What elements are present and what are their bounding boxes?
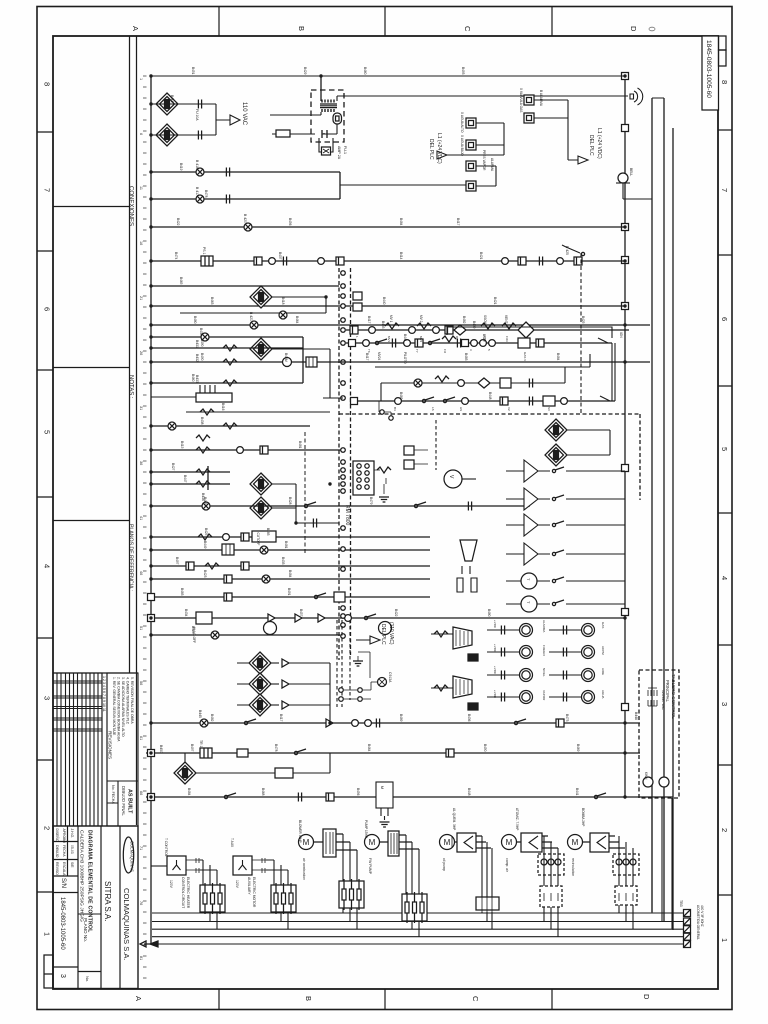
PLC input blocks: [340, 112, 504, 191]
svg-text:comp. air: comp. air: [505, 858, 509, 873]
row y=652 col1: [487, 651, 519, 653]
rung 2 wire: [151, 103, 216, 105]
rung y=566: [151, 565, 430, 567]
svg-text:4. CAMBIO TERMINALES PLC: 4. CAMBIO TERMINALES PLC: [126, 677, 130, 725]
svg-text:CALDERA CH3 1000BHP 250PSIG JH: CALDERA CH3 1000BHP 250PSIG JHG/G: [79, 830, 85, 922]
svg-text:8: 8: [43, 82, 52, 86]
svg-text:B484: B484: [556, 353, 560, 361]
svg-text:1. REV. GENERAL SEGUN MONTAJE: 1. REV. GENERAL SEGUN MONTAJE: [112, 677, 116, 736]
svg-text:DIBUJO: DIBUJO: [55, 845, 59, 858]
left rail: [150, 76, 152, 944]
svg-text:B478: B478: [204, 190, 208, 198]
svg-text:B423: B423: [203, 570, 207, 578]
dashed column lines: [339, 268, 351, 660]
node L2-306: [622, 303, 629, 310]
indicator lamp grid: [487, 620, 605, 704]
svg-text:B464: B464: [295, 316, 299, 324]
svg-text:3: 3: [43, 696, 52, 700]
svg-text:T7: T7: [415, 349, 419, 353]
svg-text:B499: B499: [472, 321, 476, 329]
motor circles mid: [264, 622, 277, 635]
bus terminals right: [684, 910, 691, 917]
chain right part: [502, 258, 509, 265]
rung y=337: [151, 336, 303, 338]
svg-text:V2: V2: [507, 407, 511, 411]
svg-text:05-03: 05-03: [70, 845, 74, 854]
row y=697 col2: [549, 696, 581, 698]
svg-text:CONEXIONES: CONEXIONES: [128, 186, 134, 226]
svg-text:ACPM: ACPM: [601, 646, 605, 655]
svg-text:(110 VAC): (110 VAC): [388, 622, 394, 645]
svg-text:B 416: B 416: [195, 160, 199, 169]
rung y=506: [151, 505, 530, 507]
svg-text:6: 6: [43, 307, 52, 311]
rung y=306: [151, 305, 625, 307]
svg-text:51: 51: [139, 626, 143, 630]
svg-text:120V: 120V: [235, 880, 239, 889]
node L2-260: [622, 257, 629, 264]
svg-text:B448: B448: [467, 788, 471, 796]
rung y=412: [186, 411, 330, 413]
svg-text:B490: B490: [200, 353, 204, 361]
svg-text:B464: B464: [367, 744, 371, 752]
rung y=635: [151, 634, 340, 636]
svg-text:B428: B428: [288, 497, 292, 505]
svg-text:C: C: [471, 996, 480, 1002]
svg-text:3. SE ADICIONA ALARMA NIVEL AL: 3. SE ADICIONA ALARMA NIVEL ALTO: [121, 677, 125, 737]
svg-text:+VDC: +VDC: [493, 620, 497, 629]
svg-text:AMP 2A: AMP 2A: [337, 146, 341, 160]
row y=675 col1: [487, 674, 519, 676]
svg-text:B441: B441: [403, 334, 407, 342]
svg-text:DEL PLC: DEL PLC: [588, 135, 594, 156]
svg-text:B456: B456: [288, 218, 292, 226]
svg-text:BELL: BELL: [629, 168, 633, 176]
svg-text:ALARMA: ALARMA: [490, 158, 494, 172]
starter group G7 recirculation M5: [568, 808, 640, 929]
svg-text:FU: FU: [443, 349, 447, 353]
notes block border: [107, 673, 138, 826]
rung y=484: [151, 466, 230, 490]
node L2-707: [622, 704, 629, 711]
svg-text:GAS V: GAS V: [523, 352, 527, 361]
switches right of drivers: [552, 467, 564, 473]
svg-text:B482: B482: [210, 714, 214, 722]
rung y=537: [151, 536, 430, 538]
svg-text:B480: B480: [487, 609, 491, 617]
svg-text:BOMBA 2HP: BOMBA 2HP: [581, 808, 585, 826]
relay box K8: [376, 782, 393, 808]
svg-text:C913A: C913A: [388, 672, 392, 683]
burner programmer RM7800: [305, 253, 640, 660]
svg-text:1 2 3 4 5 6 7 8 9 10: 1 2 3 4 5 6 7 8 9 10 11: [102, 676, 106, 712]
rung 3 wire: [151, 104, 216, 135]
rung y=383 breaker: [151, 337, 303, 383]
svg-text:B438: B438: [200, 417, 204, 425]
svg-text:AL QUEM. 3HP: AL QUEM. 3HP: [452, 808, 456, 830]
svg-text:B415: B415: [180, 441, 184, 449]
secondary exit wire: [337, 96, 628, 101]
dashed column piece: [337, 620, 350, 707]
svg-text:L1 (+24 VDC): L1 (+24 VDC): [436, 133, 442, 164]
svg-text:B422: B422: [176, 218, 180, 226]
svg-text:SSOV: SSOV: [483, 315, 487, 325]
bottom fuse loop: [319, 133, 333, 152]
drawing number box: [702, 36, 726, 110]
svg-text:B497: B497: [190, 744, 194, 752]
svg-text:B468: B468: [261, 788, 265, 796]
lamp X3: [244, 223, 252, 231]
svg-text:M: M: [380, 786, 384, 789]
svg-text:71: 71: [139, 846, 143, 850]
svg-text:5: 5: [720, 447, 729, 451]
top margin oval mark: [649, 27, 655, 31]
svg-text:B450: B450: [483, 744, 487, 752]
svg-text:B483: B483: [399, 392, 403, 400]
svg-text:BLOWER 40HP: BLOWER 40HP: [298, 820, 302, 843]
svg-text:NOTAS :: NOTAS :: [128, 375, 134, 399]
svg-text:T CONTROL: T CONTROL: [164, 838, 168, 857]
svg-text:B 420: B 420: [243, 214, 247, 223]
low water diamond D4: [250, 338, 272, 360]
rung y=343 chain: [346, 342, 612, 344]
svg-text:MV 1: MV 1: [389, 315, 393, 323]
svg-text:S/N: S/N: [60, 878, 66, 888]
burner switch diamond D3: [250, 286, 272, 308]
ground right of box: [353, 661, 363, 666]
svg-text:B445: B445: [198, 710, 202, 718]
svg-text:+VDC: +VDC: [493, 644, 497, 653]
svg-text:16: 16: [139, 241, 143, 245]
rung y=723: [151, 722, 640, 724]
svg-text:B448: B448: [488, 392, 492, 400]
svg-text:B416: B416: [170, 95, 174, 103]
svg-text:46: 46: [139, 571, 143, 575]
left section column: [53, 36, 138, 825]
svg-text:B421: B421: [479, 252, 483, 260]
svg-text:B484: B484: [399, 218, 403, 226]
svg-text:41: 41: [139, 516, 143, 520]
rung y=618: [151, 617, 625, 619]
RM7800 lower terminal circles: [341, 448, 346, 453]
lamp X2: [196, 195, 204, 203]
svg-text:FU-1: FU-1: [343, 146, 347, 154]
water column diamond B: [250, 497, 272, 519]
small boxes right of terminals: [353, 292, 362, 300]
bracket above right: [447, 327, 612, 338]
svg-text:120V: 120V: [169, 880, 173, 889]
svg-text:B434: B434: [184, 609, 188, 617]
cap: [226, 168, 229, 177]
annunciator trapezoid B: [453, 627, 472, 649]
svg-text:B490: B490: [200, 339, 204, 347]
svg-text:8: 8: [720, 80, 729, 84]
svg-text:MV24: MV24: [377, 352, 381, 361]
rung number ticks: [143, 76, 147, 978]
svg-text:DEL PLC: DEL PLC: [380, 624, 386, 645]
svg-text:61: 61: [139, 736, 143, 740]
svg-text:ALARMA: ALARMA: [542, 620, 546, 632]
rung 6 (y=227): [151, 226, 625, 228]
svg-text:B422: B422: [394, 609, 398, 617]
svg-text:B417: B417: [365, 353, 369, 361]
svg-text:AGUA: AGUA: [601, 690, 605, 699]
svg-text:J.H.G.: J.H.G.: [70, 829, 74, 839]
svg-text:SV: SV: [547, 407, 551, 411]
motor starter band: [150, 798, 704, 948]
svg-text:B425: B425: [581, 316, 585, 324]
transformer fuse: [333, 113, 342, 124]
left arrow bottom: [140, 941, 151, 947]
svg-text:B441: B441: [575, 788, 579, 796]
svg-text:B489: B489: [399, 714, 403, 722]
revision row stripes (rotated rows appear as vertical lines): [57, 673, 98, 826]
svg-text:6: 6: [720, 317, 729, 321]
svg-text:4: 4: [720, 576, 729, 580]
svg-text:B4: B4: [393, 407, 397, 411]
rung y=450: [151, 449, 343, 451]
wire bell to rail: [623, 98, 664, 199]
rung y=330 chain: [346, 329, 629, 331]
svg-text:HS: HS: [459, 407, 463, 411]
svg-text:FU 10A: FU 10A: [195, 109, 199, 121]
svg-text:DIBUJO FINAL: DIBUJO FINAL: [121, 786, 126, 816]
svg-text:5: 5: [43, 430, 52, 434]
svg-text:B448: B448: [634, 712, 638, 720]
flow switch FS1: [156, 93, 178, 115]
starter group G3 blower motor M1: [298, 820, 364, 929]
svg-text:B450: B450: [159, 745, 163, 753]
svg-text:MV1: MV1: [387, 336, 391, 343]
sub rung y=383: [381, 367, 565, 401]
svg-text:2: 2: [720, 828, 729, 832]
svg-text:B420: B420: [482, 334, 486, 342]
wire number labels: [170, 67, 585, 796]
svg-text:B ALARMA: B ALARMA: [539, 90, 543, 107]
svg-text:B493: B493: [461, 67, 465, 75]
aux contact rect: [276, 130, 290, 137]
starter group G6 compressor M4: [502, 808, 565, 937]
transformer caps: [322, 130, 327, 138]
row y=630 col2: [549, 629, 581, 631]
svg-text:11: 11: [139, 186, 143, 190]
svg-text:VAPOR: VAPOR: [542, 690, 546, 701]
svg-text:B429: B429: [303, 67, 307, 75]
svg-text:B473: B473: [565, 714, 569, 722]
svg-text:REVISIONES: REVISIONES: [108, 731, 113, 759]
svg-text:B438: B438: [199, 328, 203, 336]
caps feeding trapezoids: [431, 634, 453, 688]
svg-text:VENT: VENT: [504, 315, 508, 324]
svg-text:MV2: MV2: [419, 336, 423, 343]
svg-text:A: A: [134, 996, 143, 1001]
svg-text:1845-0803-1005-60: 1845-0803-1005-60: [705, 40, 712, 98]
svg-text:No. FECHA: No. FECHA: [111, 785, 115, 804]
svg-text:TB3: TB3: [679, 900, 683, 907]
cap: [226, 195, 229, 204]
DEL PLC arrow 2: [568, 100, 578, 160]
svg-text:GAS: GAS: [601, 622, 605, 628]
svg-text:B451: B451: [191, 67, 195, 75]
tablero control principal: [639, 670, 679, 798]
svg-text:76: 76: [139, 901, 143, 905]
rung y=348 breaker: [151, 347, 303, 349]
rung y=401: [352, 400, 615, 402]
lower section: [140, 620, 673, 947]
DEL PLC 110 VAC arrow: [356, 636, 380, 644]
rung y=286: [151, 285, 339, 287]
svg-text:B 417: B 417: [195, 187, 199, 196]
svg-text:RM 7800: RM 7800: [344, 505, 350, 526]
svg-text:120/440 VAC: 120/440 VAC: [661, 690, 665, 710]
svg-text:X VALVULA GAS: X VALVULA GAS: [519, 88, 523, 112]
svg-text:ELECTRIC MOTOR: ELECTRIC MOTOR: [252, 877, 256, 908]
node L2-76: [622, 73, 629, 80]
svg-text:PS 1: PS 1: [202, 247, 206, 254]
svg-text:LS: LS: [431, 407, 435, 411]
svg-text:110 VAC: 110 VAC: [241, 102, 247, 126]
heater block caps: [200, 385, 215, 393]
svg-text:PILOTO: PILOTO: [403, 352, 407, 364]
resistor + ground right of strip: [374, 470, 386, 484]
svg-text:B437: B437: [278, 252, 282, 260]
svg-text:FUEGO: FUEGO: [542, 645, 546, 656]
svg-text:No.: No.: [85, 976, 90, 982]
svg-text:CUTOFF: CUTOFF: [256, 533, 260, 546]
transformer winding: [322, 100, 334, 113]
title block: [53, 826, 138, 989]
svg-text:4: 4: [43, 564, 52, 568]
svg-text:B483: B483: [180, 588, 184, 596]
svg-text:3: 3: [59, 974, 66, 978]
svg-text:X AGUA ALTO: X AGUA ALTO: [460, 112, 464, 133]
bus lines: [152, 913, 687, 937]
svg-text:B480: B480: [193, 316, 197, 324]
svg-text:1: 1: [43, 932, 52, 936]
annunciator trapezoid C: [453, 676, 472, 698]
svg-text:3: 3: [720, 702, 729, 706]
dashed link vertical left: [304, 432, 306, 553]
svg-text:SITRA S.A.: SITRA S.A.: [103, 881, 112, 921]
rung 1: [151, 75, 625, 77]
svg-text:B481: B481: [298, 441, 302, 449]
svg-text:B460: B460: [191, 374, 195, 382]
svg-text:air combustion: air combustion: [302, 858, 306, 880]
svg-text:440 V 3F 60HZ: 440 V 3F 60HZ: [700, 905, 704, 927]
svg-text:26: 26: [139, 351, 143, 355]
svg-text:DEL PLC: DEL PLC: [428, 139, 434, 160]
rung y=579: [151, 578, 430, 580]
svg-text:D: D: [629, 26, 638, 32]
svg-text:B417: B417: [456, 218, 460, 226]
svg-text:B463: B463: [210, 297, 214, 305]
svg-text:DISEÑO: DISEÑO: [55, 829, 60, 842]
svg-text:A: A: [131, 26, 140, 31]
PLC output drivers U2: [506, 460, 625, 612]
pilot valve section: [346, 315, 629, 420]
pilot lamp: [378, 678, 387, 687]
revision entry rules: [53, 681, 102, 731]
transformer marks: [648, 688, 657, 706]
svg-text:B456: B456: [356, 788, 360, 796]
svg-text:B: B: [297, 26, 306, 31]
110 VAC arrow: [216, 115, 240, 125]
svg-text:81: 81: [139, 956, 143, 960]
double diamond A: [545, 419, 567, 441]
svg-text:+VDC: +VDC: [493, 690, 497, 699]
AS BUILT box: [107, 781, 138, 826]
svg-text:B425: B425: [204, 528, 208, 536]
svg-text:B433: B433: [281, 557, 285, 565]
svg-text:7: 7: [43, 188, 52, 192]
lamp X1: [196, 168, 204, 176]
starter group G2 aux transformer: [230, 838, 296, 929]
svg-text:oil pump: oil pump: [442, 858, 446, 871]
cap C1: [198, 100, 201, 109]
fuse to cap wire: [270, 112, 337, 134]
svg-text:C: C: [463, 26, 472, 32]
svg-text:DIAGRAMA ELEMENTAL DE CONTROL: DIAGRAMA ELEMENTAL DE CONTROL: [87, 830, 93, 933]
terminal strip box: [353, 461, 374, 495]
svg-text:B460: B460: [363, 67, 367, 75]
svg-text:S/E: S/E: [70, 862, 74, 868]
volt selector box: [306, 357, 317, 367]
svg-text:TABLERO CONTROL: TABLERO CONTROL: [671, 674, 676, 719]
rung y=313: [180, 312, 326, 314]
node L2-468: [622, 465, 629, 472]
svg-text:B 421: B 421: [249, 312, 253, 321]
top section: [151, 76, 664, 231]
node L2-612: [622, 609, 629, 616]
svg-text:KWH: KWH: [644, 772, 648, 780]
right rail B: [651, 98, 653, 912]
svg-text:B457: B457: [299, 609, 303, 617]
rung y=597: [151, 596, 430, 598]
svg-text:MV 2: MV 2: [419, 315, 423, 323]
svg-text:L1 (+24 VDC): L1 (+24 VDC): [596, 128, 602, 159]
rung y=398: [323, 397, 343, 399]
dashed box bottom edge: [339, 413, 524, 415]
svg-text:B465: B465: [179, 277, 183, 285]
row y=652 col2: [549, 651, 581, 653]
dashed stub: [435, 420, 437, 470]
svg-text:B418: B418: [281, 297, 285, 305]
dashed pilot box top right: [524, 414, 640, 500]
rung y=797: [146, 796, 673, 798]
bottom margin zone ticks: [219, 989, 552, 1009]
diamond output wire: [272, 297, 326, 313]
svg-text:B440: B440: [382, 297, 386, 305]
pressure switch chain rung (y=261): [151, 260, 625, 262]
svg-text:ESCALA: ESCALA: [62, 862, 66, 876]
sub terminals below: [379, 401, 391, 418]
RM7800 upper terminal circles: [341, 271, 346, 276]
svg-text:B449: B449: [203, 541, 207, 549]
svg-text:ELECTRIC HEATER: ELECTRIC HEATER: [186, 877, 190, 909]
svg-text:36: 36: [139, 461, 143, 465]
svg-text:B436: B436: [467, 714, 471, 722]
bus left arrow: [150, 941, 158, 947]
svg-text:D1: D1: [455, 336, 459, 340]
svg-text:B491: B491: [287, 588, 291, 596]
svg-text:1845-0803-1005-60: 1845-0803-1005-60: [59, 897, 65, 950]
horn arcs: [630, 88, 643, 105]
svg-text:AUXILIARY: AUXILIARY: [247, 877, 251, 895]
small sq col left: [404, 446, 414, 455]
starter group G5 oil pump M3: [440, 808, 500, 929]
rung 4 (y=172): [151, 171, 340, 173]
rung y=550: [151, 549, 430, 551]
